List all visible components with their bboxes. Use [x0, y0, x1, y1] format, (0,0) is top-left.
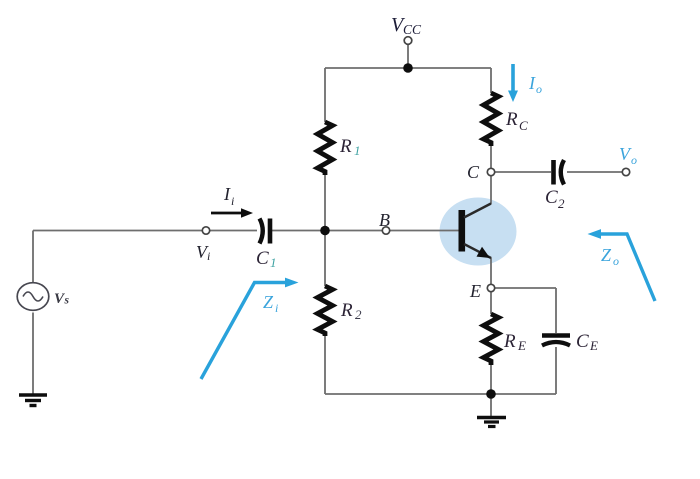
- wire VCC stub: [407, 44, 409, 68]
- capacitor C2: [551, 160, 556, 185]
- svg-text:o: o: [613, 254, 619, 268]
- arrow Io: [511, 64, 515, 92]
- wire top rail: [325, 67, 491, 69]
- svg-text:E: E: [469, 281, 481, 301]
- wire node E to RE: [490, 292, 492, 315]
- wire source drop: [32, 231, 34, 283]
- wire source to ground: [32, 313, 34, 395]
- node B: [382, 227, 389, 234]
- wire emitter to node E: [490, 258, 492, 285]
- svg-text:C: C: [576, 331, 589, 352]
- svg-text:I: I: [528, 73, 536, 93]
- svg-text:Z: Z: [263, 292, 274, 312]
- wire B to transistor base: [390, 230, 460, 232]
- arrow Zo: [600, 234, 655, 301]
- resistor R2: [318, 286, 333, 336]
- wire RE to ground rail: [490, 365, 492, 394]
- svg-text:o: o: [536, 82, 542, 96]
- svg-text:Z: Z: [601, 245, 612, 265]
- arrow Ii: [211, 212, 243, 215]
- capacitor CE: [542, 333, 570, 337]
- wire node C to collector: [490, 176, 492, 205]
- svg-text:i: i: [275, 301, 278, 315]
- svg-text:o: o: [631, 153, 637, 167]
- svg-text:1: 1: [354, 143, 361, 158]
- wire C1 to B: [272, 230, 383, 232]
- junction dot input node: [320, 226, 330, 236]
- node VCC terminal: [404, 37, 412, 45]
- svg-text:R: R: [503, 331, 516, 352]
- node E: [487, 284, 494, 291]
- node C: [487, 168, 494, 175]
- junction dot VCC rail: [403, 63, 413, 73]
- svg-text:R: R: [340, 300, 353, 321]
- capacitor C1: [260, 219, 263, 244]
- ground (under Vs): [19, 393, 47, 397]
- svg-text:C: C: [545, 187, 558, 208]
- wire input from source to Vi: [33, 230, 203, 232]
- transistor highlight circle: [440, 198, 517, 266]
- wire R2 bottom to ground rail: [324, 336, 326, 394]
- wire R1 branch top: [324, 68, 326, 122]
- svg-text:I: I: [223, 184, 231, 204]
- svg-text:R: R: [505, 109, 518, 130]
- wire Vi to C1: [210, 230, 258, 232]
- arrow Zi: [201, 283, 286, 380]
- resistor RC: [484, 93, 499, 146]
- wire C2 to Vo: [567, 171, 623, 173]
- svg-text:2: 2: [558, 196, 565, 211]
- wire ground rail to ground symbol: [490, 394, 492, 416]
- svg-text:C: C: [467, 162, 480, 182]
- svg-text:C: C: [256, 248, 269, 269]
- svg-text:CC: CC: [403, 22, 422, 37]
- wire CE branch down: [555, 288, 557, 333]
- resistor RE: [484, 314, 499, 365]
- svg-text:2: 2: [355, 307, 362, 322]
- svg-text:R: R: [339, 136, 352, 157]
- transistor Q1: [458, 210, 465, 252]
- svg-text:B: B: [379, 210, 390, 230]
- wire CE to ground rail: [555, 347, 557, 394]
- svg-text:i: i: [231, 194, 234, 208]
- ground (under RE): [477, 416, 506, 419]
- voltage source Vs: [17, 283, 49, 311]
- svg-text:1: 1: [270, 255, 277, 270]
- wire node C to C2: [495, 171, 552, 173]
- wire RC to node C: [490, 146, 492, 169]
- wire VCC rail to RC: [490, 68, 492, 93]
- svg-text:s: s: [64, 295, 70, 307]
- node Vi: [202, 227, 209, 234]
- node Vo: [622, 168, 629, 175]
- svg-text:C: C: [519, 118, 528, 133]
- wire bottom ground rail: [325, 393, 556, 395]
- resistor R1: [318, 122, 333, 175]
- wire node E to CE branch: [495, 287, 557, 289]
- wire R1 bottom to input node: [324, 175, 326, 231]
- svg-text:E: E: [589, 338, 598, 353]
- junction dot ground rail: [486, 389, 496, 399]
- svg-text:E: E: [517, 338, 526, 353]
- wire node to R2 top: [324, 231, 326, 287]
- svg-text:i: i: [207, 249, 210, 263]
